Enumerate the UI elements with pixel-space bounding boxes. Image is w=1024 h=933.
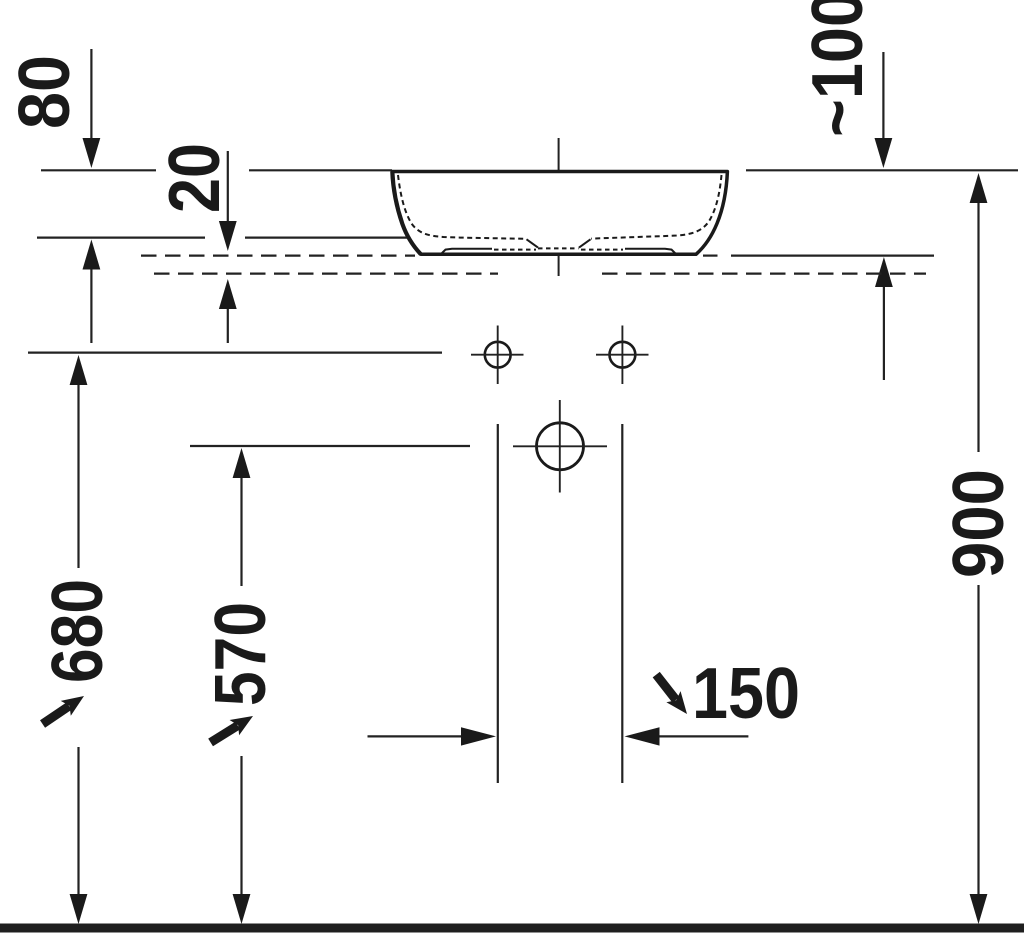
reference line A right segment [746,169,1018,171]
countertop bottom hidden line (dashed, left part) [154,273,498,275]
dim 20 lower arrow (up arrow to countertop bottom) [219,279,237,343]
countertop level solid reference line (right of basin) [731,255,934,257]
svg-text:150: 150 [692,654,800,734]
svg-text:80: 80 [5,55,85,129]
foot ring right solid line [625,249,676,254]
svg-text:570: 570 [201,602,281,706]
faucet hole left circle [485,342,511,368]
washbasin inner bowl hidden line (left) [398,175,525,239]
countertop top hidden line (short dash right of basin) [703,255,718,257]
foot ring left hidden dashes [494,249,536,251]
dim 570 vertical line upper part (up arrow to line D) [233,448,251,586]
drain recess right slant [579,239,591,247]
drain hole crosshair vertical [559,400,561,493]
dim 150 left line (right arrow) [368,727,497,745]
svg-text:~100: ~100 [798,0,878,137]
dim 680 vertical line lower part (down arrow to floor) [70,747,88,924]
reference line B left segment [37,237,205,239]
drain recess bottom hidden line [538,247,579,249]
reference line A (rim level) left segment [41,169,156,171]
faucet hole right axis line [621,424,623,783]
dim 570 vertical line lower part (down arrow to floor) [233,756,251,924]
dim 80 lower arrow (up arrow to line B) [83,240,101,344]
drain hole crosshair horizontal [513,445,607,447]
dim 900 vertical line upper part (up arrow to line A) [970,173,988,452]
foot ring right hidden dashes [581,249,623,251]
reference line A middle segment [249,169,392,171]
svg-text:20: 20 [155,143,235,213]
dim 900 vertical line lower part (down arrow to floor) [970,585,988,924]
reference line D (drain line) [190,445,470,447]
drain recess left slant [527,239,539,247]
countertop bottom hidden line (dashed, right part) [602,273,926,275]
dim 20 upper extension (down arrow to countertop top) [219,151,237,251]
washbasin inner bowl hidden line (right) [591,175,722,239]
faucet hole right circle [610,342,636,368]
dim 680 adjustable arrow [38,689,90,732]
drain hole circle [537,423,584,470]
faucet hole left crosshair vertical [497,326,499,385]
foot ring left solid line [441,249,492,254]
dim 80 upper extension line (down arrow to rim line) [83,49,101,168]
basin centerline (dash-dot) [558,138,560,279]
countertop top hidden line (dashed, left of basin) [141,255,415,257]
faucet hole right crosshair horizontal [596,354,649,356]
svg-text:900: 900 [939,469,1019,578]
dim ~100 lower arrow (up arrow to countertop level) [875,257,893,380]
reference line C (tap line) [28,352,442,354]
dim 150 right line (left arrow) [625,727,749,745]
faucet hole left axis line [497,424,499,783]
dim 150 adjustable arrow [649,669,694,719]
dim ~100 upper extension (down arrow to rim line) [875,52,893,168]
faucet hole right crosshair vertical [621,326,623,385]
reference line B right segment (to basin wall) [245,237,412,239]
floor bar [0,924,1024,933]
dim 680 vertical line upper part (up arrow to line C) [70,355,88,568]
faucet hole left crosshair horizontal [471,354,524,356]
svg-text:680: 680 [38,579,118,683]
dim 570 adjustable arrow [206,708,258,750]
washbasin outer profile [392,172,727,255]
washbasin left outer wall (thicker pass) [392,172,421,255]
